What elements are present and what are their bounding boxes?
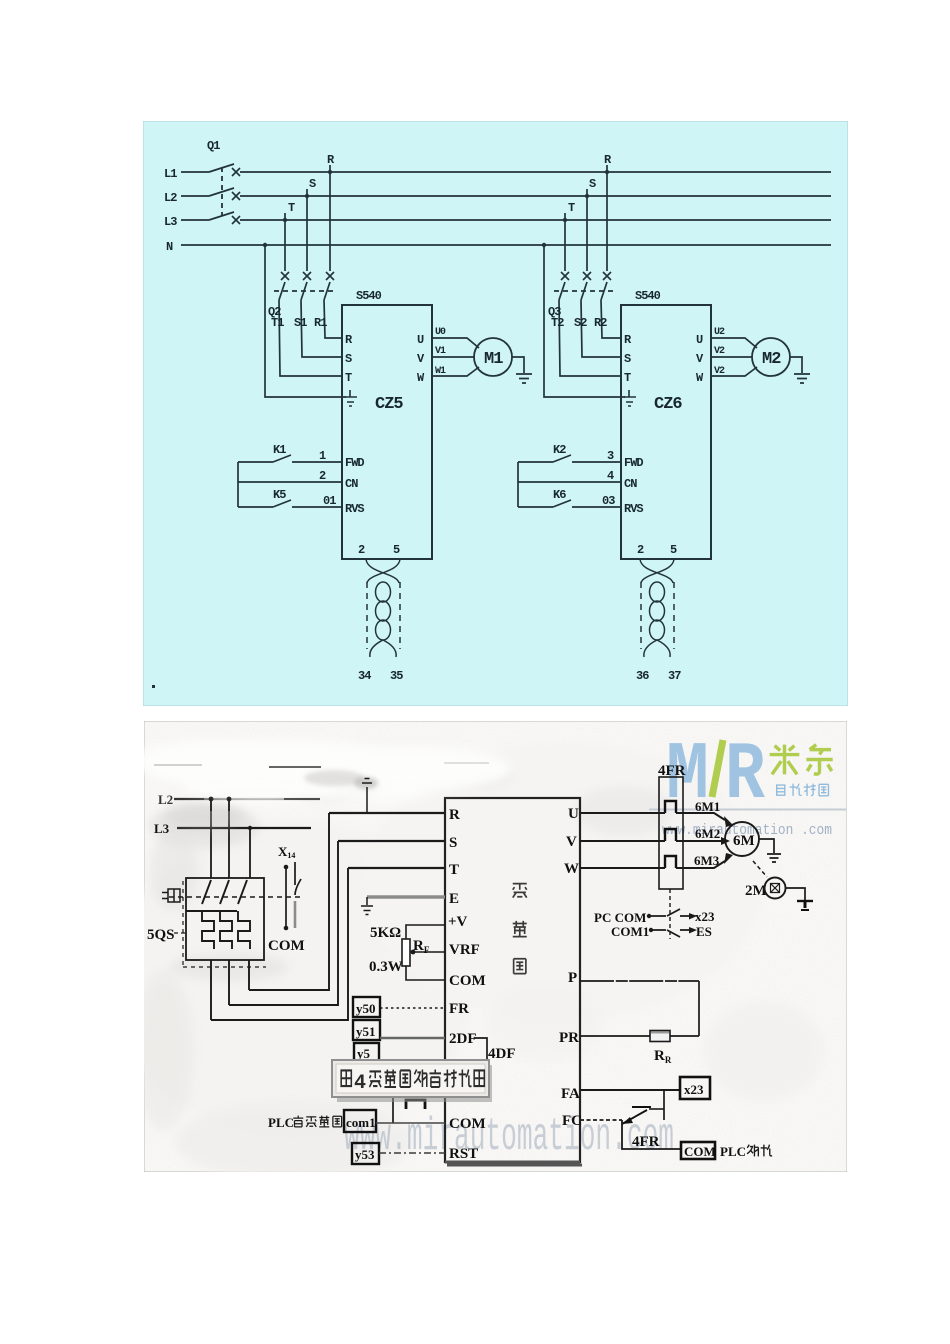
inverter box bottom shadow xyxy=(445,1162,582,1165)
svg-text:V: V xyxy=(566,834,577,850)
switch Q1 contact cross 3 xyxy=(232,216,240,224)
wire V2 to M2 xyxy=(711,356,752,358)
inverter U1 CZ5 box xyxy=(342,305,432,559)
svg-text:6M3: 6M3 xyxy=(694,853,720,868)
tacho glyph xyxy=(771,884,780,893)
svg-text:6M1: 6M1 xyxy=(695,799,720,814)
svg-text:2: 2 xyxy=(637,543,644,557)
junction dot R2/L1 xyxy=(605,170,609,174)
svg-text:T: T xyxy=(345,371,352,385)
pot wiper to VRF xyxy=(410,951,445,953)
junction dots restamp xyxy=(209,797,214,802)
module box x23 xyxy=(680,1077,710,1099)
label bianpinqi vertical xyxy=(513,884,527,974)
breaker inner shelf xyxy=(186,910,237,912)
twisted pair loop 2 CZ6 xyxy=(650,601,665,621)
svg-text:V2: V2 xyxy=(714,346,725,357)
svg-text:CZ5: CZ5 xyxy=(375,395,403,414)
wire run to T xyxy=(211,868,348,1020)
wire P loop xyxy=(580,980,699,982)
scanned paper background xyxy=(144,721,847,1172)
twisted pair screen dashes CZ6 xyxy=(641,582,674,649)
svg-text:36: 36 xyxy=(636,669,649,683)
svg-text:5: 5 xyxy=(393,543,400,557)
svg-text:E: E xyxy=(449,891,459,907)
wire T to inverter xyxy=(348,867,445,869)
shaft link dashed xyxy=(753,861,767,877)
svg-text:y51: y51 xyxy=(356,1024,376,1039)
watermark zidonghuawang xyxy=(777,784,829,796)
svg-text:S: S xyxy=(345,352,352,366)
wire 4FR to 6M2 xyxy=(676,840,722,842)
wire com1 to COM xyxy=(376,1122,445,1124)
svg-text:COM: COM xyxy=(268,938,305,954)
svg-text:U2: U2 xyxy=(714,327,725,338)
contactor Q3 cross 2 xyxy=(583,272,591,280)
contact K6 blade xyxy=(553,500,571,507)
wire R to inverter xyxy=(329,812,445,814)
svg-text:35: 35 xyxy=(390,669,403,683)
svg-text:03: 03 xyxy=(602,494,615,508)
wire K1 row FWD xyxy=(238,461,342,463)
junction dot N tap xyxy=(263,243,267,247)
twisted pair loop 1 CZ5 xyxy=(376,582,391,602)
wire K2 row FWD xyxy=(518,461,621,463)
wire L2 bus xyxy=(181,195,831,197)
wire W to 4FR xyxy=(580,867,665,869)
svg-text:COM: COM xyxy=(449,1116,486,1132)
twisted pair tails CZ6 xyxy=(644,640,670,657)
svg-text:T: T xyxy=(568,201,575,215)
wire K6 row RVS xyxy=(518,506,621,508)
svg-text:5KΩ: 5KΩ xyxy=(370,925,401,941)
wire L2 xyxy=(174,798,320,800)
wire W2 to M2 xyxy=(711,367,757,376)
wire L1 remnant xyxy=(269,766,321,768)
svg-text:37: 37 xyxy=(668,669,681,683)
svg-text:RST: RST xyxy=(449,1146,478,1162)
breaker outlet 1 xyxy=(210,960,212,1020)
svg-text:Q1: Q1 xyxy=(207,139,220,153)
motor M1 circle xyxy=(474,338,512,376)
earth of M1 xyxy=(516,374,532,383)
svg-text:FA: FA xyxy=(561,1086,580,1102)
earth of M2 xyxy=(794,374,810,383)
svg-text:M1: M1 xyxy=(484,350,503,369)
arrow 6M3 xyxy=(724,853,733,864)
breaker dashed outline xyxy=(183,881,266,967)
svg-text:y5: y5 xyxy=(357,1046,371,1061)
motor M2 circle xyxy=(752,338,790,376)
wire FC to COM box xyxy=(622,1120,681,1149)
thermal element 2 xyxy=(220,911,232,949)
svg-text:U0: U0 xyxy=(435,327,446,338)
module box y50 xyxy=(353,997,380,1017)
contact 4FR U xyxy=(665,801,676,813)
wire W1 to M1 xyxy=(432,367,479,376)
svg-text:1: 1 xyxy=(319,449,326,463)
wire 4FR to 6M3 xyxy=(676,861,725,868)
svg-text:2M: 2M xyxy=(745,883,767,899)
svg-text:L1: L1 xyxy=(164,167,177,181)
module box y51 xyxy=(353,1020,380,1040)
wire y53 to RST xyxy=(379,1152,445,1154)
svg-text:4: 4 xyxy=(354,1072,366,1095)
contact 4FR FC blade xyxy=(622,1107,651,1124)
potentiometer RF body xyxy=(402,939,410,966)
switch Q1 contact cross 2 xyxy=(232,192,240,200)
switch Q1 pole 3 blade xyxy=(209,212,234,220)
junction dot T2/L3 xyxy=(563,218,567,222)
svg-text:L3: L3 xyxy=(154,821,170,836)
twisted pair loop 1 CZ6 xyxy=(650,582,665,602)
contactor Q2 cross 1 xyxy=(281,272,289,280)
twisted pair crossover CZ6 xyxy=(640,559,674,583)
breaker blade 2 xyxy=(220,880,229,904)
svg-text:U: U xyxy=(696,333,703,347)
junction dot S1/L2 xyxy=(305,194,309,198)
node R1 tap wire xyxy=(324,165,342,338)
wire E thick xyxy=(367,895,445,899)
svg-text:COM: COM xyxy=(684,1144,716,1159)
junction dot pole2 xyxy=(227,797,231,801)
wire run to R xyxy=(249,813,329,990)
svg-text:S2: S2 xyxy=(574,316,587,330)
earth of 6M xyxy=(767,854,781,862)
wire L1 bus xyxy=(181,171,831,173)
svg-text:R2: R2 xyxy=(594,316,607,330)
switch Q1 pole 2 blade xyxy=(209,188,234,196)
twisted pair loop 3 CZ5 xyxy=(376,620,391,640)
wire FC dotted xyxy=(580,1119,622,1121)
wire com1 riser xyxy=(392,1096,394,1123)
svg-text:0.3W: 0.3W xyxy=(369,959,403,975)
svg-text:2: 2 xyxy=(319,469,326,483)
inverter box xyxy=(445,798,580,1162)
switch COM1 to ES xyxy=(651,930,689,937)
svg-text:4: 4 xyxy=(607,469,614,483)
contact 4FR W xyxy=(665,856,676,868)
svg-text:K5: K5 xyxy=(273,488,286,502)
svg-text:y53: y53 xyxy=(355,1147,375,1162)
ground terminal CZ5 xyxy=(345,390,357,406)
wire L3 xyxy=(177,827,311,829)
wire L2 to breaker pole1 xyxy=(210,799,212,878)
pot wiper dot xyxy=(411,950,416,955)
junction dot T1/L3 xyxy=(283,218,287,222)
wire U to 4FR xyxy=(580,812,665,814)
breaker blade 1 xyxy=(202,880,211,904)
switch PC COM to x23 xyxy=(649,909,689,916)
wire K5 row RVS xyxy=(238,506,342,508)
svg-text:RVS: RVS xyxy=(345,502,364,516)
contact 4FR aux xyxy=(406,1100,425,1109)
svg-text:K2: K2 xyxy=(553,443,566,457)
arrow 6M2 xyxy=(721,837,730,845)
svg-text:RVS: RVS xyxy=(624,502,643,516)
node S2 tap wire xyxy=(581,189,621,357)
tacho 2M circle xyxy=(765,878,786,899)
svg-text:M2: M2 xyxy=(762,350,781,369)
contactor Q3 cross 3 xyxy=(603,272,611,280)
svg-text:W: W xyxy=(564,861,579,877)
wire 2M to earth xyxy=(786,888,806,900)
svg-text:PLC: PLC xyxy=(720,1144,746,1159)
svg-text:U: U xyxy=(568,806,579,822)
svg-text:T: T xyxy=(449,862,459,878)
svg-text:S: S xyxy=(589,177,596,191)
contact K1 blade xyxy=(273,455,291,462)
contactor Q2 cross 3 xyxy=(326,272,334,280)
wire N to CZ5 ground xyxy=(265,245,346,397)
twisted pair tails CZ5 xyxy=(370,640,396,657)
switch Q1 contact cross 1 xyxy=(232,168,240,176)
wire L2 to breaker pole2 xyxy=(228,799,230,878)
contactor Q2 mechanical link xyxy=(274,290,336,292)
wire 6M to earth xyxy=(759,839,774,853)
svg-text:CN: CN xyxy=(624,477,637,491)
wire FA to x23 xyxy=(580,1089,680,1091)
wire M2 to earth xyxy=(790,357,802,373)
svg-text:6M: 6M xyxy=(733,833,755,849)
svg-text:S540: S540 xyxy=(635,289,661,303)
wire +V to pot xyxy=(406,925,445,939)
node T2 tap wire xyxy=(559,213,621,376)
switch Q1 pole 1 blade xyxy=(209,164,234,172)
junction dot pole1 xyxy=(209,797,213,801)
module box com1 xyxy=(344,1110,376,1132)
watermark hanzi mi xyxy=(770,745,800,775)
svg-text:2DF: 2DF xyxy=(449,1031,477,1047)
earth of E xyxy=(361,897,373,915)
svg-text:K6: K6 xyxy=(553,488,566,502)
junction dot pole3 xyxy=(248,826,252,830)
watermark hanzi er xyxy=(806,745,832,774)
link 4FR dashed xyxy=(669,889,671,939)
svg-text:T: T xyxy=(624,371,631,385)
junction dot N tap right xyxy=(542,243,546,247)
motor 6M xyxy=(725,822,759,856)
wire CN row xyxy=(238,481,342,483)
earth of 2M bold xyxy=(797,901,813,910)
wire V1 to M1 xyxy=(432,356,475,358)
resistor RR body xyxy=(650,1031,670,1042)
svg-text:5: 5 xyxy=(670,543,677,557)
svg-text:S: S xyxy=(309,177,316,191)
svg-text:S: S xyxy=(449,835,457,851)
connector X14 pole a dots xyxy=(284,865,289,870)
switch Q1 mechanical link xyxy=(221,167,223,216)
svg-text:5QS: 5QS xyxy=(147,927,175,943)
node T1 tap wire xyxy=(279,213,342,376)
wire 2DF link right xyxy=(474,1038,487,1062)
svg-text:3: 3 xyxy=(607,449,614,463)
wire U0 to M1 xyxy=(432,338,479,348)
svg-text:R: R xyxy=(725,729,766,822)
wire FA branch down xyxy=(663,1090,665,1120)
svg-text:R1: R1 xyxy=(314,316,327,330)
thermal element 1 xyxy=(202,911,214,949)
breaker 5QS body xyxy=(186,878,264,960)
svg-text:N: N xyxy=(166,240,173,254)
twisted pair loop 3 CZ6 xyxy=(650,620,665,640)
svg-text:FWD: FWD xyxy=(345,456,364,470)
svg-text:FC: FC xyxy=(562,1113,582,1129)
svg-text:PR: PR xyxy=(559,1030,579,1046)
svg-text:COM: COM xyxy=(449,973,486,989)
twisted pair screen dashes CZ5 xyxy=(367,582,400,649)
figure 1: dual inverter schematic on cyan background xyxy=(143,121,848,706)
wire U2 to M2 xyxy=(711,338,757,348)
contactor 4FR body xyxy=(659,777,683,889)
twisted pair crossover CZ5 xyxy=(366,559,400,583)
svg-text:FWD: FWD xyxy=(624,456,643,470)
contactor Q2 cross 2 xyxy=(303,272,311,280)
arrow 6M1 xyxy=(724,816,733,827)
caption box figure 4 xyxy=(332,1060,492,1102)
svg-text:x23: x23 xyxy=(695,909,715,924)
scan smudge white xyxy=(134,740,514,830)
module box y52 partial xyxy=(354,1043,379,1061)
svg-text:V1: V1 xyxy=(435,346,446,357)
svg-text:VRF: VRF xyxy=(449,942,480,958)
svg-text:y50: y50 xyxy=(356,1001,376,1016)
breaker outlet 3 xyxy=(248,960,250,990)
svg-text:R: R xyxy=(449,807,460,823)
svg-text:L3: L3 xyxy=(164,215,177,229)
wire K bracket right xyxy=(517,462,519,507)
breaker blade 3 xyxy=(238,880,247,904)
wire CN row right xyxy=(518,481,621,483)
junction dot S2/L2 xyxy=(585,194,589,198)
wire FC junction xyxy=(649,1108,664,1110)
svg-text:4FR: 4FR xyxy=(632,1134,660,1150)
svg-text:6M2: 6M2 xyxy=(695,826,720,841)
wire y51 to 2DF xyxy=(380,1037,445,1040)
thermal element 3 xyxy=(238,911,250,949)
contact 4FR V xyxy=(665,829,676,841)
pot bottom to COM xyxy=(406,966,445,980)
svg-text:COM1: COM1 xyxy=(611,924,649,939)
svg-text:L2: L2 xyxy=(158,792,173,807)
node S1 tap wire xyxy=(301,189,342,357)
inverter U2 CZ6 box xyxy=(621,305,711,559)
twisted pair loop 2 CZ5 xyxy=(376,601,391,621)
contact K2 blade xyxy=(553,455,571,462)
svg-text:S540: S540 xyxy=(356,289,382,303)
node R2 tap wire xyxy=(601,165,621,338)
contactor Q3 cross 1 xyxy=(561,272,569,280)
watermark rule line xyxy=(649,809,846,811)
svg-text:ES: ES xyxy=(696,924,712,939)
wire K bracket left xyxy=(237,462,239,507)
wire S to inverter xyxy=(338,840,445,842)
module box y53 xyxy=(352,1143,379,1164)
contact K5 blade xyxy=(273,500,291,507)
svg-text:S1: S1 xyxy=(294,316,307,330)
svg-text:2: 2 xyxy=(358,543,365,557)
5QS leader dash xyxy=(174,932,185,934)
connector HE plug xyxy=(162,889,180,902)
svg-text:U: U xyxy=(417,333,424,347)
connector X14 pole b hook xyxy=(295,862,301,895)
wire FR dotted xyxy=(380,1007,445,1009)
svg-text:T: T xyxy=(288,201,295,215)
svg-text:FR: FR xyxy=(449,1001,469,1017)
svg-text:PC COM: PC COM xyxy=(594,910,646,925)
module box COM xyxy=(681,1142,715,1159)
wire N bus xyxy=(181,244,831,246)
wire L3 to breaker pole3 xyxy=(249,828,251,878)
junction dot R1/L1 xyxy=(328,170,332,174)
svg-text:S: S xyxy=(624,352,631,366)
svg-text:CZ6: CZ6 xyxy=(654,395,682,414)
connector X14 pole a xyxy=(285,868,287,926)
earth stub top xyxy=(362,779,372,814)
watermark MIR logo green slash I xyxy=(712,740,723,797)
figure 2: inverter external wiring scanned diagram xyxy=(144,721,847,1172)
svg-text:x23: x23 xyxy=(684,1082,704,1097)
svg-text:T1: T1 xyxy=(271,316,284,330)
svg-text:com1: com1 xyxy=(346,1115,376,1130)
breaker trip link dashed xyxy=(169,896,304,898)
svg-text:L2: L2 xyxy=(164,191,177,205)
svg-text:T2: T2 xyxy=(551,316,564,330)
svg-text:P: P xyxy=(568,970,577,986)
contactor Q3 mechanical link xyxy=(554,290,613,292)
wire N to CZ6 ground xyxy=(544,245,625,397)
wire L3 bus xyxy=(181,219,831,221)
wire run to S xyxy=(229,841,338,1005)
stray dot mark xyxy=(152,685,155,688)
svg-text:34: 34 xyxy=(358,669,371,683)
wire PR to resistor xyxy=(580,1035,699,1037)
svg-text:4DF: 4DF xyxy=(488,1046,516,1062)
wire 4FR to 6M1 xyxy=(676,813,725,820)
wire M1 to earth xyxy=(512,357,524,373)
ground terminal CZ6 xyxy=(624,390,636,406)
svg-text:K1: K1 xyxy=(273,443,286,457)
svg-text:CN: CN xyxy=(345,477,358,491)
svg-text:+V: +V xyxy=(448,914,468,930)
breaker outlet 2 xyxy=(228,960,230,1005)
svg-text:PLC: PLC xyxy=(268,1115,294,1130)
svg-text:01: 01 xyxy=(323,494,336,508)
wire V to 4FR xyxy=(580,840,665,842)
